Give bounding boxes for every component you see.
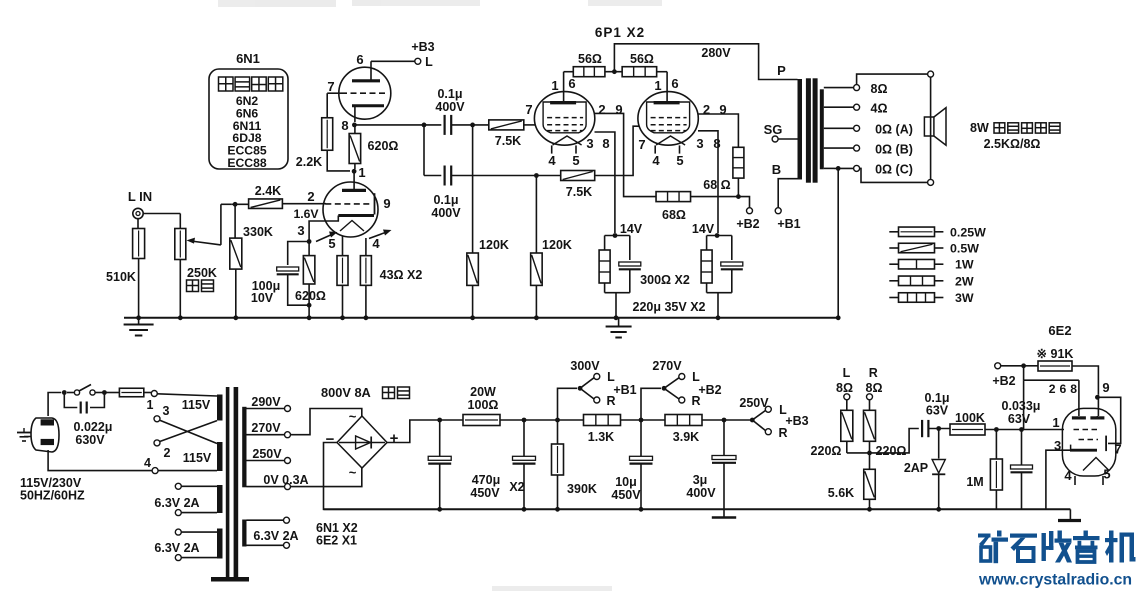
terminal +B2 top — [747, 208, 753, 214]
pot wiper arrow — [187, 238, 221, 245]
wire jack down — [137, 219, 139, 229]
resistor 510K — [133, 229, 145, 259]
transformer OPT primary — [798, 79, 803, 180]
svg-text:+B2: +B2 — [992, 374, 1015, 388]
label 43R X2 — [380, 268, 423, 282]
node 56R junction — [612, 69, 617, 74]
label 0.1u A — [437, 87, 462, 101]
label 6.3V 2A right — [253, 529, 298, 543]
node 1M top — [994, 427, 999, 432]
node cathode RC top — [307, 239, 312, 244]
watermark logo (cjk) crystalradio — [978, 531, 1136, 564]
label 450V — [470, 486, 500, 500]
transformer OPT core — [806, 78, 818, 182]
wire node A down — [423, 125, 425, 176]
label 100R — [468, 398, 499, 412]
wire node — [231, 203, 248, 205]
node B2 branch — [1021, 363, 1026, 368]
wire 0V to bridge — [291, 468, 362, 487]
svg-text:68Ω: 68Ω — [662, 208, 686, 222]
label 450V 10u — [611, 488, 641, 502]
label 6N1 — [236, 51, 260, 66]
svg-text:220Ω: 220Ω — [876, 444, 907, 458]
labels V1 pins 4 5 — [548, 153, 579, 168]
svg-text:620Ω: 620Ω — [368, 139, 399, 153]
wire 2.2K top to grid — [326, 93, 328, 118]
svg-text:800V 8A: 800V 8A — [321, 385, 371, 400]
label 4 eye — [1064, 468, 1072, 483]
6E2 plate bar 9 — [1090, 416, 1104, 418]
capacitor 100u/10V — [277, 267, 299, 274]
label 5 — [328, 236, 335, 251]
svg-text:220Ω: 220Ω — [811, 444, 842, 458]
label 100u — [252, 279, 281, 293]
PT core base — [211, 577, 249, 582]
node 2.4K/330K junction — [233, 202, 238, 207]
label ~ bottom — [349, 465, 357, 480]
label +B2 b — [698, 383, 721, 397]
label 68R h — [662, 208, 686, 222]
PT winding 115V a — [217, 395, 223, 421]
wire 2.4K to grid — [282, 203, 326, 205]
terminal 250V R — [765, 429, 771, 435]
label 4 — [372, 236, 380, 251]
svg-text:6E2 X1: 6E2 X1 — [316, 534, 357, 548]
svg-text:5: 5 — [328, 236, 335, 251]
svg-text:7.5K: 7.5K — [495, 134, 521, 148]
capacitor 0.1u A — [445, 115, 452, 135]
svg-text:R: R — [606, 394, 615, 408]
svg-text:+: + — [390, 430, 399, 447]
node cap470a — [437, 418, 442, 423]
svg-text:1.6V: 1.6V — [293, 207, 319, 221]
label 300V — [570, 359, 600, 373]
svg-text:4Ω: 4Ω — [871, 102, 888, 116]
label 6 — [356, 52, 363, 67]
svg-text:6.3V 2A: 6.3V 2A — [253, 529, 298, 543]
label P — [777, 63, 786, 78]
label 63V b — [1008, 412, 1031, 426]
wire 100K to pin1 — [985, 429, 1064, 431]
label L IN — [128, 189, 152, 204]
label 2.2K — [296, 155, 322, 169]
label 50HZ/60HZ — [20, 489, 85, 503]
capacitor 3u — [712, 420, 736, 509]
6E2 grid dashes row1 — [1074, 429, 1099, 431]
terminal 6.3b-2 — [175, 555, 217, 561]
wire 250V L — [752, 411, 765, 421]
terminal pin4 — [144, 456, 158, 474]
label 63V — [926, 404, 949, 418]
svg-text:450V: 450V — [611, 488, 641, 502]
label 68R v — [703, 178, 730, 192]
wire rail d — [702, 418, 752, 423]
svg-text:620Ω: 620Ω — [295, 289, 326, 303]
wire to capB — [424, 175, 441, 177]
diode 2AP — [932, 429, 945, 512]
wire 620R to gnd — [307, 284, 312, 320]
label 390K — [567, 482, 597, 496]
label 1M — [966, 475, 983, 489]
resistor 620R cathode — [303, 256, 315, 284]
svg-text:6.3V 2A: 6.3V 2A — [154, 496, 199, 510]
PT winding 115V b — [217, 442, 223, 471]
node RC1 top — [613, 233, 618, 238]
label 510K — [106, 270, 136, 284]
heater arrow pin5 — [316, 232, 338, 242]
svg-text:400V: 400V — [431, 206, 461, 220]
resistor 68R vertical — [733, 147, 744, 178]
6E2 cathode — [1070, 445, 1097, 451]
input jack J1 — [133, 208, 143, 218]
svg-text:100Ω: 100Ω — [468, 398, 499, 412]
wire 220R join — [847, 441, 870, 453]
svg-text:6.3V 2A: 6.3V 2A — [154, 541, 199, 555]
svg-text:115V: 115V — [183, 451, 212, 465]
label R b3 — [778, 426, 787, 440]
svg-text:470μ: 470μ — [472, 473, 501, 487]
label 3 — [297, 223, 304, 238]
svg-text:300Ω X2: 300Ω X2 — [640, 273, 690, 287]
label 3 eye — [1054, 438, 1061, 453]
label plus — [390, 430, 399, 447]
6N1b grid (dashed) — [325, 203, 370, 205]
label 250K — [187, 266, 217, 280]
ground symbol lower mid — [712, 509, 736, 517]
resistor 120K A — [467, 253, 479, 285]
svg-text:9: 9 — [383, 196, 390, 211]
label minus — [326, 431, 335, 448]
svg-text:8: 8 — [341, 118, 348, 133]
wire cross 3-2 b — [160, 421, 217, 442]
wire to pin9 — [1097, 394, 1099, 416]
svg-text:5.6K: 5.6K — [828, 486, 854, 500]
svg-text:120K: 120K — [542, 238, 572, 252]
transformer OPT secondary — [820, 89, 824, 169]
svg-text:10V: 10V — [251, 291, 274, 305]
PT winding 6.3V a — [217, 485, 223, 513]
node 300V fan — [578, 386, 583, 391]
svg-text:0V 0.3A: 0V 0.3A — [263, 473, 308, 487]
labels V2 pins 2 9 — [703, 102, 727, 117]
label 14V b — [692, 222, 715, 236]
ground bus (top schematic) — [124, 317, 838, 319]
svg-text:63V: 63V — [1008, 412, 1031, 426]
label 7 eye — [1114, 442, 1121, 457]
wire cross 3-2 a — [160, 420, 217, 443]
label 2.5Kohm/8ohm — [984, 137, 1041, 151]
svg-text:290V: 290V — [251, 395, 281, 409]
wire plate to +B3 — [371, 60, 415, 62]
resistor 2.4K — [249, 199, 283, 209]
label 56R B — [630, 52, 654, 66]
svg-text:L: L — [692, 370, 700, 384]
resistor 100K — [950, 424, 985, 435]
label ~ top — [349, 409, 357, 424]
resistor 620R upper — [349, 134, 361, 164]
svg-text:5: 5 — [676, 153, 683, 168]
node screens junction — [736, 194, 741, 199]
svg-text:+B2: +B2 — [698, 383, 721, 397]
wire pin8 to capA — [354, 124, 441, 126]
svg-text:0.25W: 0.25W — [950, 225, 986, 239]
tap 290V — [247, 395, 291, 412]
wire L to 220R — [846, 400, 848, 411]
svg-text:63V: 63V — [926, 404, 949, 418]
svg-text:50HZ/60HZ: 50HZ/60HZ — [20, 489, 85, 503]
svg-text:+B1: +B1 — [613, 383, 636, 397]
node 270V fan — [662, 386, 667, 391]
label (cjk) dual-gang — [187, 280, 214, 292]
svg-text:330K: 330K — [243, 225, 273, 239]
svg-text:4: 4 — [548, 153, 556, 168]
svg-text:4: 4 — [372, 236, 380, 251]
wire 270V R — [664, 388, 679, 399]
svg-text:120K: 120K — [479, 238, 509, 252]
potentiometer 250K — [175, 229, 186, 260]
label R b2 — [691, 394, 700, 408]
svg-text:X2: X2 — [509, 480, 524, 494]
label 14V a — [620, 222, 643, 236]
wire 270V L — [664, 378, 679, 389]
labels V2 pins 4 5 — [652, 153, 683, 168]
terminal pin3 — [154, 404, 170, 422]
label 220R R — [876, 444, 907, 458]
terminal SG — [772, 136, 797, 142]
svg-text:3: 3 — [696, 136, 703, 151]
mains plug — [31, 418, 59, 452]
node A — [422, 123, 427, 128]
svg-text:+B1: +B1 — [777, 217, 800, 231]
svg-text:8Ω: 8Ω — [866, 381, 883, 395]
wire 300V R — [580, 388, 594, 399]
resistor 68R horizontal — [656, 192, 691, 202]
label 8R R — [866, 381, 883, 395]
svg-text:R: R — [869, 366, 878, 380]
svg-text:0.5W: 0.5W — [950, 242, 979, 256]
label 1 — [358, 165, 365, 180]
tap 8R — [824, 82, 888, 96]
svg-text:0Ω (B): 0Ω (B) — [875, 143, 913, 157]
label 3u — [693, 473, 708, 487]
label 0.1u B — [433, 193, 458, 207]
node 0.033 top — [1019, 427, 1024, 432]
wire plug top — [48, 393, 61, 417]
svg-text:270V: 270V — [652, 359, 682, 373]
svg-text:6: 6 — [568, 76, 575, 91]
terminal 6.3a-1 — [175, 483, 217, 489]
wire cathode node down — [308, 239, 310, 256]
svg-text:6: 6 — [356, 52, 363, 67]
labels V1 pins 2 9 — [598, 102, 622, 117]
label R b1 — [606, 394, 615, 408]
svg-text:510K: 510K — [106, 270, 136, 284]
wire term4 to winding — [158, 470, 217, 472]
svg-text:56Ω: 56Ω — [630, 52, 654, 66]
wire jack to pot — [143, 214, 180, 229]
svg-text:1: 1 — [1052, 415, 1059, 430]
label L(+B3) — [425, 55, 433, 69]
bridge rectifier — [337, 416, 387, 468]
label 220u 35V X2 — [633, 300, 706, 314]
svg-text:2: 2 — [164, 446, 171, 460]
label 2 6 8 — [1049, 382, 1078, 396]
node 1 (SRPP midpoint) — [352, 169, 357, 174]
wire 7.5KA to grid1 — [524, 124, 535, 126]
PT core — [226, 387, 238, 578]
label 220R L — [811, 444, 842, 458]
svg-text:0Ω (A): 0Ω (A) — [875, 123, 913, 137]
terminal 250V L — [765, 406, 771, 412]
6E2 grid dashes row2 — [1079, 439, 1099, 441]
wire capB to 7.5K B — [451, 173, 561, 178]
svg-text:8: 8 — [602, 136, 609, 151]
label 6N1 X2 — [316, 521, 358, 535]
label 0.1u 63V a — [924, 391, 949, 405]
svg-text:6: 6 — [671, 76, 678, 91]
label L b3 — [779, 403, 787, 417]
svg-text:56Ω: 56Ω — [578, 52, 602, 66]
tap 250V — [247, 447, 291, 464]
label L b2 — [692, 370, 700, 384]
terminal 300V L — [594, 374, 600, 380]
heater arrow pin4 — [369, 230, 392, 239]
6N1a plate — [352, 61, 380, 81]
svg-text:9: 9 — [1102, 380, 1109, 395]
svg-text:L IN: L IN — [128, 189, 152, 204]
terminal spk top — [928, 71, 934, 77]
resistor 330K — [230, 238, 242, 269]
RC network 1 (300R + 220u) — [599, 236, 641, 321]
svg-text:1: 1 — [358, 165, 365, 180]
wire rail c — [621, 418, 666, 423]
wire 0RC to gnd — [836, 168, 841, 320]
label 0.022u — [74, 420, 113, 434]
label 10V — [251, 291, 274, 305]
label ref 91K — [1037, 347, 1074, 361]
capacitor 0.1u B — [445, 166, 452, 186]
pentode 6P1 V1 — [534, 92, 594, 154]
node RC2 top — [715, 233, 720, 238]
wire 270V to bridge — [291, 409, 362, 435]
label 115V/230V — [20, 476, 82, 490]
tap 0R A — [824, 123, 913, 137]
label 400V 3u — [686, 486, 716, 500]
ground symbol left — [124, 318, 154, 336]
label 6.3V 2A a — [154, 496, 199, 510]
svg-text:P: P — [777, 63, 786, 78]
node sw right — [102, 390, 107, 395]
resistor 2.2K — [322, 118, 333, 151]
legend 0.25W — [889, 225, 986, 239]
svg-text:SG: SG — [764, 122, 783, 137]
svg-text:0.1μ: 0.1μ — [433, 193, 458, 207]
resistor 7.5K B — [561, 171, 595, 181]
svg-text:1W: 1W — [955, 258, 974, 272]
svg-text:+B3: +B3 — [411, 40, 434, 54]
svg-text:3: 3 — [586, 136, 593, 151]
wire capA to 7.5K — [451, 123, 489, 128]
bridge diode — [339, 436, 385, 449]
legend 3W — [889, 291, 974, 305]
label SG — [764, 122, 783, 137]
label 7 — [327, 79, 334, 94]
svg-text:100K: 100K — [955, 411, 985, 425]
terminal pin1 mains — [151, 391, 157, 397]
wire pin4 lead — [365, 238, 367, 256]
6E2 pin5 stub — [1102, 476, 1104, 485]
label 280V — [701, 46, 731, 60]
wire 91K to pin9/7 — [1072, 366, 1098, 394]
svg-text:L: L — [843, 366, 851, 380]
wire 8R to speaker+ — [857, 74, 928, 85]
terminal 300V R — [594, 397, 600, 403]
wire cap to gnd loop — [288, 275, 312, 308]
svg-text:450V: 450V — [470, 486, 500, 500]
terminal spk bottom — [928, 179, 934, 185]
terminal 270V L — [679, 374, 685, 380]
wire 2.2K bottom to node1 — [327, 150, 350, 171]
svg-text:630V: 630V — [75, 433, 105, 447]
wire cap branch — [288, 242, 309, 266]
label 630V — [75, 433, 105, 447]
label pin1 — [147, 398, 154, 412]
wire 620R to node8 — [354, 127, 356, 134]
ground symbol mid — [606, 318, 632, 338]
svg-text:7: 7 — [525, 102, 532, 117]
svg-text:250V: 250V — [739, 396, 769, 410]
plug ground — [17, 428, 31, 441]
label 800V 8A bridge (cjk) — [321, 385, 410, 400]
capacitor 0.033u — [1011, 430, 1033, 510]
wire 68Rh to junction — [691, 196, 739, 198]
wire 7.5KB to grid2 — [595, 126, 639, 175]
RC network 2 (300R + 220u) — [701, 236, 743, 321]
svg-text:3μ: 3μ — [693, 473, 708, 487]
svg-text:3W: 3W — [955, 291, 974, 305]
wire V1 screen to 68R-h — [594, 113, 656, 196]
svg-text:4: 4 — [144, 456, 151, 470]
capacitor 10u — [630, 420, 653, 512]
pentode 6P1 V2 — [638, 92, 698, 154]
svg-text:~: ~ — [349, 465, 357, 480]
svg-text:7: 7 — [638, 137, 645, 152]
6E2 target pin7 bar — [1105, 436, 1107, 452]
node diode top — [936, 426, 941, 431]
wire 43Ra to gnd — [340, 285, 345, 320]
svg-text:8Ω: 8Ω — [871, 82, 888, 96]
resistor 120K B — [531, 253, 543, 285]
wire V1 cathode down — [595, 132, 615, 233]
wire +B2 to 91K — [1001, 365, 1038, 367]
wire rail b — [500, 418, 583, 423]
svg-text:400V: 400V — [435, 100, 465, 114]
wire 68Rv down — [737, 178, 739, 197]
svg-text:1M: 1M — [966, 475, 983, 489]
svg-text:0.022μ: 0.022μ — [74, 420, 113, 434]
ground symbol lower right — [1058, 509, 1081, 520]
wire 120KA up — [472, 125, 474, 253]
svg-text:L: L — [425, 55, 433, 69]
capacitor 470u a — [428, 420, 451, 512]
wire V2 screen to 68R-v — [698, 114, 739, 147]
svg-text:2.5KΩ/8Ω: 2.5KΩ/8Ω — [984, 137, 1041, 151]
svg-text:+B2: +B2 — [736, 217, 759, 231]
legend 2W — [889, 274, 974, 288]
label 2AP — [904, 461, 928, 475]
label L spk — [843, 366, 851, 380]
wire speaker rail — [930, 77, 932, 179]
